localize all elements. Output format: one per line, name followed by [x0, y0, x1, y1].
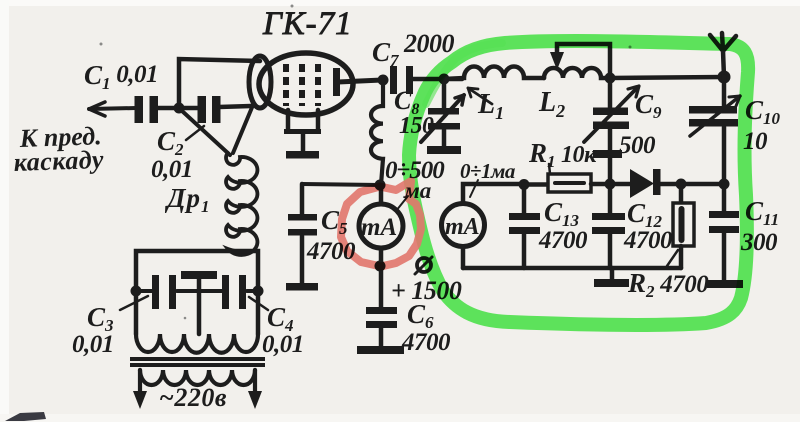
node A (grid input) [174, 103, 185, 114]
node C13 [519, 179, 530, 190]
ground C11 [707, 280, 743, 288]
label R1 10k [528, 138, 597, 171]
capacitor C2 [198, 96, 207, 123]
capacitor C9 (variable) [608, 78, 613, 109]
svg-text:4700: 4700 [538, 227, 588, 254]
node left [131, 286, 142, 297]
capacitor C8 (variable) [442, 79, 447, 109]
wire C7 to node [413, 77, 462, 82]
center tap stem [197, 279, 202, 334]
svg-text:0÷1ма: 0÷1ма [460, 159, 515, 183]
wire segments y291 [136, 289, 258, 293]
tube filament ellipse [249, 56, 271, 108]
center tap ground bar [181, 271, 217, 279]
wire L2 to antenna node [610, 77, 724, 78]
green highlighter loop [409, 41, 748, 325]
capacitor C1 [135, 96, 144, 123]
capacitor C10 (variable) [722, 77, 727, 107]
bottom-left smudge [5, 412, 46, 421]
label C5 4700 [306, 205, 356, 265]
wire C1 to node [156, 106, 179, 111]
svg-text:0,01: 0,01 [72, 331, 114, 358]
resistor R2 [679, 184, 684, 203]
svg-text:0,01: 0,01 [151, 156, 193, 183]
label C8 150 [394, 86, 434, 139]
transformer core [130, 357, 265, 361]
transformer T1 top rail [136, 251, 258, 291]
capacitor C12 [608, 184, 613, 214]
meter PA1 0-500mA [379, 185, 384, 204]
label ~220v [159, 383, 227, 412]
label L2 [538, 87, 565, 121]
wire C2 to tube filament [219, 106, 251, 107]
wire anode out [338, 80, 383, 82]
node meter top [375, 180, 386, 191]
svg-text:R2 4700: R2 4700 [627, 268, 709, 301]
node R2 [676, 179, 687, 190]
transformer primary winding [140, 370, 255, 385]
capacitor C3 [152, 275, 159, 309]
label 0-500 ma [385, 157, 445, 203]
label Dr1 [164, 183, 210, 216]
svg-text:0,01: 0,01 [262, 331, 304, 358]
red marker circle around meter [341, 181, 421, 267]
svg-text:ГК-71: ГК-71 [262, 6, 353, 42]
node C9/C12 [605, 179, 616, 190]
capacitor C5 [300, 184, 305, 215]
node C11 [719, 179, 730, 190]
meter PA2 0-1mA [460, 159, 515, 183]
label R2 4700 [627, 268, 709, 301]
transformer secondary winding [136, 291, 258, 334]
choke Dr1 (grid choke coil) [226, 153, 257, 255]
resistor R1 [524, 182, 548, 187]
ground C6 [357, 346, 404, 354]
label C7 2000 [372, 29, 455, 70]
marker layer [341, 41, 748, 325]
label +1500 [391, 276, 462, 305]
anode choke coil [371, 80, 383, 185]
svg-text:тА: тА [445, 214, 480, 240]
primary lead arrows [138, 370, 142, 400]
tube anode [333, 68, 340, 96]
capacitor C13 [522, 184, 527, 214]
arrow to previous stage [89, 108, 136, 109]
antenna W1 [710, 33, 736, 77]
label C6 4700 [401, 299, 451, 356]
ground C5 [286, 283, 318, 291]
svg-text:тА: тА [361, 214, 397, 241]
C8 variable arrow [421, 95, 464, 142]
svg-text:~220в: ~220в [159, 383, 227, 412]
capacitor C11 [722, 184, 727, 212]
green double pass [426, 43, 502, 104]
tube GK-71 label [262, 6, 353, 42]
bottom rail [463, 266, 681, 271]
terminal symbol [417, 258, 431, 272]
label C1 0,01 [84, 60, 158, 93]
leader C2 [186, 126, 204, 140]
label C2 0,01 [151, 126, 193, 183]
tube grid leads to ground [288, 110, 318, 131]
capacitor C6 [379, 266, 384, 308]
wire node to C2 [179, 106, 198, 111]
label C4 0,01 [262, 302, 304, 358]
tap wire with arrow [557, 44, 610, 78]
label C12 4700 [623, 198, 673, 254]
label C11 300 [740, 196, 779, 256]
label C3 0,01 [72, 302, 114, 358]
C10 variable arrow [690, 96, 740, 136]
node anode junction [378, 75, 389, 86]
tube U1 envelope [259, 53, 353, 115]
svg-text:4700: 4700 [623, 227, 673, 254]
node antenna [718, 71, 731, 84]
node +1500 terminal [375, 261, 386, 272]
paper specks [100, 5, 632, 320]
wire diagonal node to choke [181, 110, 230, 155]
wire riser to top rail [179, 59, 260, 108]
svg-text:2000: 2000 [403, 29, 455, 58]
node right [253, 286, 264, 297]
inductor L1 [444, 67, 544, 80]
diode V1 [630, 169, 654, 198]
svg-text:4700: 4700 [401, 329, 451, 356]
capacitor C4 [222, 275, 229, 309]
ground (cathode) [286, 151, 319, 159]
wire diagonal filament to choke [233, 105, 253, 153]
node after C7 [439, 74, 450, 85]
svg-text:500: 500 [619, 132, 656, 159]
tube grids (dashed) [286, 64, 318, 106]
label L1 with arrow [477, 89, 504, 123]
wire to C5 [302, 184, 380, 185]
label C13 4700 [538, 197, 588, 254]
label: К пред. каскаду [13, 121, 104, 177]
capacitor C7 [390, 66, 397, 94]
svg-text:R1 10к: R1 10к [528, 138, 597, 171]
leader 0-500 to meter [396, 196, 408, 211]
label C10 10 [743, 95, 781, 155]
inductor L2 [544, 68, 610, 78]
label C9 500 [619, 89, 662, 159]
svg-text:каскаду: каскаду [13, 145, 104, 177]
C9 variable arrow [584, 89, 636, 142]
ground mid [610, 268, 615, 280]
node C9 top [605, 73, 616, 84]
